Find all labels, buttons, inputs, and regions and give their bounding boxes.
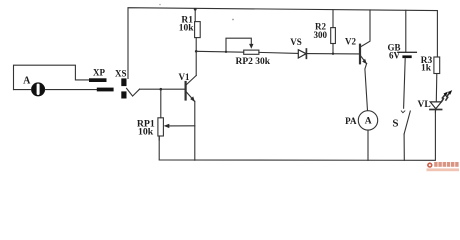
svg-text:PA: PA (345, 116, 357, 126)
potentiometer RP1 wiper arrow from V1 emitter line (167, 125, 195, 127)
plug XP lower prong (97, 88, 114, 92)
LED VL cathode bar (430, 109, 442, 111)
ammeter A (portable meter, filled circle with slot) (31, 82, 45, 96)
transistor V2 base bar (359, 45, 361, 64)
svg-text:300: 300 (314, 30, 328, 40)
potentiometer RP2 body (244, 50, 259, 54)
wire: PA bottom to return rail (367, 130, 369, 160)
node: R2 bottom junction (332, 53, 334, 55)
watermark text row 2 (427, 168, 460, 171)
svg-text:RP2 30k: RP2 30k (236, 57, 271, 67)
svg-text:1k: 1k (421, 63, 432, 73)
socket XS spring contact (V notch) (127, 88, 140, 96)
wire: left meter loop (meter A to plug XP) (14, 65, 90, 89)
LED VL triangle (430, 102, 441, 109)
wire: V1 base wire from jack spring to base (140, 88, 186, 90)
resistor R1 (194, 9, 196, 21)
wire: diode VS cathode to V2 base (306, 53, 359, 55)
svg-text:VL: VL (417, 100, 430, 110)
plug XP upper prong (89, 78, 107, 82)
wire: node to V1 collector (195, 51, 197, 75)
watermark logo (red) bottom right (427, 162, 460, 171)
svg-text:10k: 10k (138, 127, 154, 138)
wire: bottom return rail (159, 110, 435, 160)
node: RP1 top junction on base wire (160, 88, 163, 91)
potentiometer RP2 wiper arrowhead (249, 44, 253, 49)
svg-text:6V: 6V (389, 50, 401, 60)
svg-text:S: S (392, 117, 398, 129)
svg-text:A: A (23, 76, 31, 87)
LED VL emission arrow 1 (442, 95, 445, 102)
LED VL emission arrow 2 (446, 93, 449, 100)
svg-text:XP: XP (93, 67, 105, 77)
battery GB positive plate (long) (398, 51, 417, 53)
wire: V1 emitter down to bottom rail (194, 101, 196, 160)
resistor R2 (332, 10, 334, 28)
transistor V2 collector diagonal and wire to rail (361, 10, 370, 47)
switch S moving-contact tick (401, 111, 405, 113)
transistor V1 base bar (185, 82, 187, 100)
node: R1 top junction on supply rail (194, 8, 197, 11)
wire: V2 emitter down to ammeter PA (365, 64, 368, 111)
speck (scan noise) (232, 19, 234, 21)
wire: RP2 right terminal to diode VS anode (259, 52, 298, 53)
transistor V1 collector diagonal (186, 76, 196, 85)
node: RP2 wiper loop junction (225, 51, 227, 53)
node: junction of R1 bottom / V1 collector / wire to RP2 (195, 50, 198, 53)
svg-text:10k: 10k (179, 24, 195, 34)
svg-text:VS: VS (290, 37, 302, 47)
resistor R3 (434, 57, 440, 74)
wire: node to RP2 left terminal (196, 50, 244, 53)
switch S bottom lead to return rail (403, 134, 405, 160)
battery GB negative plate (short thick) (402, 55, 411, 58)
socket XS upper contact (121, 78, 126, 86)
switch S blade (404, 111, 410, 134)
transistor V1 emitter diagonal with arrow (186, 92, 194, 101)
svg-text:A: A (365, 117, 372, 127)
wire: LED VL to return rail (434, 110, 436, 113)
svg-text:V1: V1 (179, 72, 190, 82)
svg-text:V2: V2 (345, 37, 356, 47)
ammeter PA (358, 111, 377, 130)
watermark text row 1 (434, 162, 437, 167)
diode VS (298, 50, 306, 58)
socket XS lower contact (121, 91, 126, 98)
transistor V2 emitter diagonal with arrow (361, 56, 367, 63)
potentiometer RP1 (160, 89, 162, 118)
battery GB top lead (405, 10, 407, 52)
battery GB bottom lead (404, 58, 406, 108)
wire: top supply rail from XS column to R3 column (128, 8, 437, 79)
potentiometer RP2 wiper loop wire (226, 38, 251, 52)
svg-text:XS: XS (115, 69, 127, 79)
